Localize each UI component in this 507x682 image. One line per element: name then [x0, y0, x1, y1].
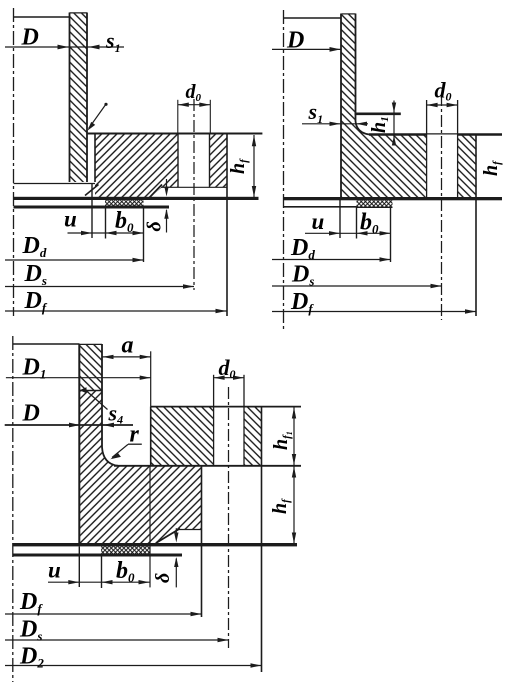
dimension Ds fig3 — [5, 617, 229, 644]
centerline fig2 — [283, 10, 285, 330]
dimension d0 fig2 — [427, 78, 458, 108]
gasket fig1 — [105, 200, 144, 206]
svg-text:δ: δ — [144, 221, 166, 231]
dimension s1 arrow fig1 — [89, 28, 121, 55]
dimension hf fig3 — [269, 467, 296, 544]
dimension a fig3 — [102, 333, 151, 407]
pipe wall and integral flange body fig2 — [341, 14, 502, 317]
flange face lines fig2 — [284, 197, 503, 207]
dimension delta fig3 — [152, 528, 179, 587]
dimension D2 fig3 — [5, 644, 262, 671]
bolt hole fig1 — [178, 134, 210, 188]
pipe top edge line fig3 — [13, 343, 80, 345]
bolt centerline fig1 — [193, 99, 195, 290]
svg-text:D: D — [286, 28, 304, 54]
gasket fig2 — [357, 200, 393, 207]
bolt centerline fig2 — [441, 94, 443, 320]
dimension D fig3 — [5, 401, 133, 428]
pipe wall fig1 — [70, 13, 88, 183]
dimension Df fig2 — [272, 289, 476, 316]
weld seam stub face fig3 — [156, 529, 180, 544]
svg-text:a: a — [122, 333, 134, 359]
dimension Dd fig2 — [272, 235, 391, 262]
centerline fig3 — [12, 336, 14, 682]
weld seam bottom-left fig1 — [85, 185, 99, 196]
dimension D fig1 — [5, 25, 124, 51]
dimension Df fig1 — [5, 288, 227, 315]
label hf fig2 — [480, 160, 503, 176]
dimension D fig2 — [272, 28, 341, 54]
bolt hole fig2 — [427, 100, 458, 198]
dimension s4 arrow fig3 — [103, 401, 123, 428]
weld seam bottom-right fig1 — [149, 185, 162, 199]
svg-text:u: u — [64, 207, 77, 232]
loose flange ring fig3 — [114, 407, 301, 672]
svg-text:D: D — [22, 401, 40, 427]
svg-text:u: u — [312, 209, 325, 234]
dimension d0 fig1 — [178, 81, 211, 134]
svg-text:δ: δ — [152, 573, 174, 583]
dimension Dd fig1 — [5, 233, 144, 262]
dimension u b0 line fig2 — [305, 209, 391, 237]
svg-text:u: u — [48, 558, 61, 583]
dimension hf1 fig3 — [270, 408, 296, 466]
dimension u b0 line fig3 — [48, 558, 150, 586]
stub face lines fig3 — [13, 530, 297, 557]
gasket fig3 — [101, 546, 150, 553]
dimension d0 fig3 — [214, 355, 244, 381]
dimension Ds fig2 — [272, 262, 442, 289]
dimension h1 fig2 — [368, 101, 396, 146]
bolt centerline fig3 — [228, 387, 230, 648]
dimension u b0 line fig1 — [64, 207, 144, 236]
stub end body fig3 — [79, 344, 201, 617]
dimension Df fig3 — [5, 589, 202, 616]
flange body fig1 — [88, 134, 263, 317]
label r with leader fig3 — [110, 422, 142, 460]
dimension s1 fig2 — [302, 99, 368, 126]
dimension Ds fig1 — [5, 261, 194, 289]
weld seam on stub fig3 — [80, 387, 108, 409]
flange face lines fig1 — [14, 184, 259, 209]
pipe top edge line fig1 — [13, 16, 69, 18]
dimension hf fig1 — [227, 135, 256, 197]
extension lines u b0 fig3 — [79, 466, 150, 588]
weld leader top fig1 — [88, 103, 108, 131]
collar step line fig2 — [355, 113, 401, 116]
centerline fig1 — [13, 8, 15, 316]
extension lines u b0 fig2 — [340, 200, 391, 262]
extension lines u b0 fig1 — [92, 184, 144, 262]
pipe top edge line fig2 — [283, 17, 341, 19]
bolt hole fig3 — [214, 375, 244, 466]
dimension D1 fig3 — [6, 355, 151, 382]
svg-text:D: D — [21, 25, 39, 51]
dimension delta fig1 — [144, 179, 169, 233]
